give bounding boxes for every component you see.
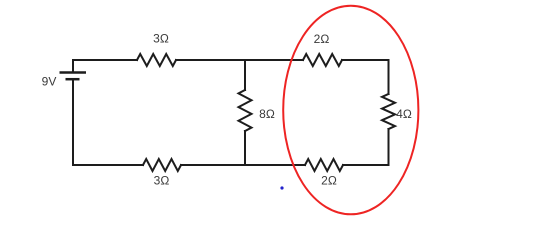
svg-text:8Ω: 8Ω [259,107,275,121]
wire middle branch top lead [244,60,246,90]
resistor R5 4ohm right [382,94,395,129]
svg-text:2Ω: 2Ω [314,32,330,46]
annotation red ellipse highlight [283,6,418,215]
svg-text:4Ω: 4Ω [396,107,412,121]
svg-text:3Ω: 3Ω [154,174,170,188]
battery V1 9V positive plate [60,71,87,74]
wire bottom: node C to R4 [245,164,305,166]
wire bottom: battery to R2 [73,80,143,165]
svg-text:3Ω: 3Ω [153,32,169,46]
wire top right corner [342,60,389,94]
wire right bottom [343,129,389,165]
resistor R6 8ohm middle [239,90,252,131]
resistor R1 3ohm top [137,54,176,66]
battery V1 9V negative plate [66,78,80,81]
wire middle branch bottom lead [244,131,246,165]
resistor R4 2ohm bottom [305,159,343,171]
wire top: battery to R1 [73,60,137,72]
svg-text:2Ω: 2Ω [321,174,337,188]
resistor R3 2ohm top [303,54,342,66]
resistor R2 3ohm bottom [143,159,181,171]
wire top: node B to R3 [245,59,303,61]
wire bottom: R2 to node C [181,164,245,166]
wire top: R1 to node B [176,59,245,61]
svg-text:9V: 9V [42,75,57,89]
blue dot mark [280,186,283,189]
